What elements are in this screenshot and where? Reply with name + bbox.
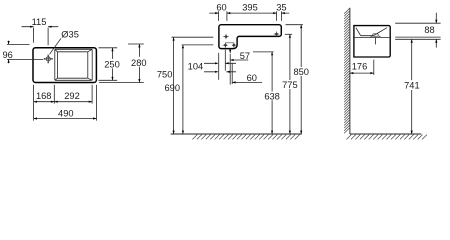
svg-text:775: 775	[282, 80, 298, 90]
extension lines for 88	[395, 13, 440, 48]
svg-text:60: 60	[216, 2, 226, 12]
fixing holes lower pair	[223, 43, 237, 48]
extension line for 775	[285, 33, 292, 35]
left edge extension below	[218, 53, 220, 80]
bowl rim	[55, 49, 92, 80]
svg-text:395: 395	[242, 2, 258, 12]
svg-text:57: 57	[240, 51, 250, 61]
fixing hole right	[274, 31, 280, 36]
drain axis arrow	[229, 51, 231, 53]
extension line for 750	[172, 36, 214, 38]
svg-text:60: 60	[247, 73, 257, 83]
wall hatching	[344, 8, 350, 133]
top dimensions 60 / 395 / 35	[209, 11, 289, 21]
svg-text:104: 104	[188, 61, 204, 71]
floor hatching (middle)	[192, 135, 299, 140]
svg-text:Ø35: Ø35	[61, 29, 79, 39]
dimension 250	[99, 48, 118, 81]
dimension 638	[271, 52, 273, 134]
basin front outline	[219, 25, 281, 49]
drain axis line	[229, 54, 231, 85]
dimension 775	[289, 34, 291, 134]
dimension 115	[22, 27, 59, 46]
svg-text:115: 115	[32, 17, 47, 27]
svg-text:96: 96	[3, 50, 13, 60]
dimension 104	[204, 63, 236, 72]
svg-text:35: 35	[276, 2, 286, 12]
extension line right of drain	[231, 63, 233, 84]
dimension 741	[411, 39, 413, 134]
svg-text:741: 741	[404, 81, 420, 91]
svg-text:176: 176	[352, 62, 368, 72]
svg-text:490: 490	[58, 109, 74, 119]
dimension 96	[7, 41, 43, 64]
dimension 176	[350, 72, 374, 74]
hole extension below	[224, 50, 226, 71]
floor hatching (right)	[347, 135, 427, 140]
drain fitting	[373, 34, 378, 36]
extension line for 690	[182, 44, 214, 46]
leader line Ø35	[50, 38, 62, 54]
floor line (right)	[350, 133, 421, 135]
drain axis	[374, 38, 376, 45]
fixing hole upper-left	[223, 34, 229, 39]
dimension 750	[173, 37, 175, 134]
bowl bottom	[57, 52, 87, 78]
extension for 176	[373, 60, 375, 75]
svg-text:750: 750	[157, 70, 173, 80]
faucet hole target	[44, 55, 53, 63]
dimension 57	[230, 59, 248, 61]
floor line (middle)	[171, 133, 302, 135]
svg-text:292: 292	[64, 91, 80, 101]
dimension 280	[99, 44, 144, 83]
svg-text:88: 88	[424, 25, 434, 35]
wall line	[349, 8, 351, 134]
svg-text:850: 850	[293, 67, 309, 77]
dimension 690	[182, 45, 184, 134]
dimensions 168 / 292	[34, 85, 97, 121]
extension line for 850	[286, 24, 303, 26]
dimension 850	[300, 25, 302, 134]
svg-text:638: 638	[264, 91, 280, 101]
svg-text:690: 690	[164, 83, 180, 93]
bowl section lines	[355, 28, 390, 38]
basin side profile	[354, 26, 390, 57]
svg-text:280: 280	[131, 58, 147, 68]
extension line for 638	[253, 51, 274, 53]
svg-text:168: 168	[36, 91, 52, 101]
svg-text:250: 250	[104, 60, 120, 70]
bowl corner edges	[55, 49, 92, 80]
dimension 60 (drain offset)	[232, 81, 262, 83]
dimension 490	[34, 118, 97, 120]
basin outline (top view)	[33, 48, 96, 83]
